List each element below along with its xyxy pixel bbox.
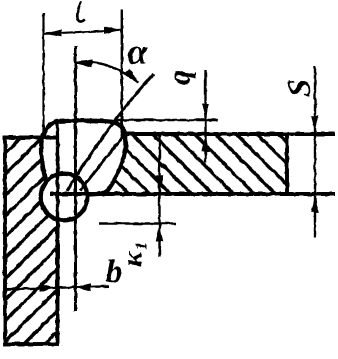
arrow S up: [311, 196, 319, 213]
plate bottom edge line through weld: [50, 192, 335, 196]
svg-text:1: 1: [132, 242, 151, 251]
arrow K1 up: [156, 225, 164, 242]
weld root pass (lower circle): [41, 174, 88, 221]
arrow alpha right: [124, 69, 139, 83]
arrow l right: [104, 26, 121, 34]
dimension b left line: [6, 286, 109, 289]
svg-text:S: S: [282, 79, 318, 97]
label l: [77, 2, 84, 22]
svg-text:b: b: [106, 255, 123, 291]
extension line left for l: [42, 13, 44, 134]
right horizontal plate: [76, 134, 288, 194]
arrow q down: [202, 104, 210, 121]
dimension line l: [45, 30, 122, 34]
right plate end face line: [74, 46, 77, 311]
dimension S upper line: [314, 66, 316, 237]
arrow alpha left: [75, 59, 93, 67]
label K1: [117, 242, 151, 267]
bevel face line: [80, 135, 125, 191]
arrow b left-pointing: [75, 283, 92, 291]
svg-text:α: α: [128, 32, 149, 72]
arrow K1 down: [156, 176, 164, 193]
svg-text:q: q: [162, 70, 197, 86]
weld bead (upper pass): [41, 121, 126, 195]
dimension q upper line: [204, 70, 206, 163]
weld top tangent extension line for q: [114, 119, 218, 121]
arrow l left: [45, 29, 62, 37]
bevel extension line: [67, 74, 154, 191]
dimension K1 upper line: [158, 135, 160, 257]
left vertical plate: [5, 138, 58, 345]
K1 extension line: [99, 222, 176, 224]
left plate right edge / root face line: [56, 124, 59, 345]
arrow q up: [202, 136, 210, 153]
plate top surface line from weld toe: [125, 132, 336, 136]
arrow S down: [311, 116, 319, 133]
angle alpha arc: [76, 62, 138, 82]
arrow b right-pointing: [40, 284, 57, 292]
left plate top edge through weld: [4, 136, 59, 140]
extension line right for l: [121, 10, 123, 136]
